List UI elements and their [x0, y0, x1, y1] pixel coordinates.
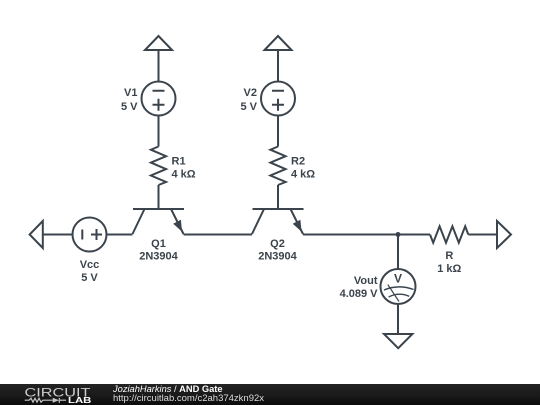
svg-text:Q2: Q2	[270, 238, 285, 250]
svg-text:5 V: 5 V	[81, 272, 98, 284]
svg-text:2N3904: 2N3904	[139, 251, 178, 263]
svg-text:R1: R1	[172, 156, 186, 168]
svg-text:Vcc: Vcc	[80, 259, 100, 271]
svg-text:2N3904: 2N3904	[258, 251, 297, 263]
svg-text:V1: V1	[124, 87, 137, 99]
svg-text:1 kΩ: 1 kΩ	[437, 263, 461, 275]
svg-text:V: V	[394, 272, 402, 286]
svg-text:R2: R2	[291, 156, 305, 168]
svg-text:4 kΩ: 4 kΩ	[172, 169, 196, 181]
svg-text:5 V: 5 V	[121, 101, 138, 113]
svg-text:Vout: Vout	[354, 275, 378, 287]
svg-text:5 V: 5 V	[240, 101, 257, 113]
svg-text:Q1: Q1	[151, 238, 166, 250]
svg-text:4 kΩ: 4 kΩ	[291, 169, 315, 181]
svg-text:R: R	[445, 250, 453, 262]
svg-text:LAB: LAB	[68, 395, 91, 405]
svg-text:4.089 V: 4.089 V	[340, 288, 379, 300]
svg-text:V2: V2	[244, 87, 257, 99]
